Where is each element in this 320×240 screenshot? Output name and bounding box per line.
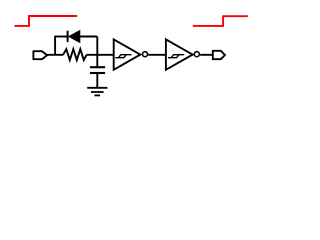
output waveform (red delayed step) [193, 16, 248, 26]
diode D1 cathode bar [67, 31, 69, 42]
node A wire down to capacitor [96, 55, 98, 67]
U1 output bubble [143, 52, 148, 57]
U2 output bubble [194, 52, 199, 57]
input port [33, 51, 47, 59]
wire diode branch top right [80, 36, 98, 38]
wire capacitor to ground [96, 73, 98, 88]
wire diode branch top left [54, 36, 67, 38]
wire U2 to output port [200, 54, 213, 56]
inverter U2 triangle [166, 39, 193, 69]
wire diode branch left vertical [54, 37, 56, 55]
wire U1 to U2 [148, 54, 166, 56]
ground [87, 88, 107, 96]
input waveform (red step) [14, 16, 77, 26]
output port [213, 51, 225, 59]
resistor R1 [63, 49, 87, 60]
diode D1 arrow (pointing left) [69, 31, 80, 43]
U1 hysteresis symbol [115, 55, 131, 58]
wire input port to resistor [47, 54, 63, 56]
capacitor C1 [90, 67, 105, 73]
U2 hysteresis symbol [168, 55, 184, 58]
wire diode branch right vertical [96, 37, 98, 55]
wire resistor to inverter input [87, 54, 114, 56]
inverter U1 triangle [114, 39, 141, 69]
